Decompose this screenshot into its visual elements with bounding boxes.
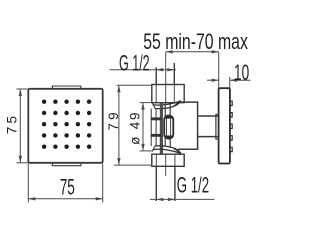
top mounting tab: [52, 86, 81, 89]
body block: [178, 102, 198, 149]
svg-text:55 min-70 max: 55 min-70 max: [143, 31, 248, 55]
nozzle dots 5x5: [42, 100, 91, 149]
centerline of pipe: [165, 52, 167, 103]
bottom mounting tab: [52, 163, 81, 166]
10 dim: [207, 77, 250, 88]
neck above capsule: [165, 103, 170, 147]
capsule (handle): [164, 116, 173, 139]
dimension 75 bottom: [28, 164, 102, 203]
svg-text:10: 10: [234, 60, 249, 85]
top flare collar: [152, 103, 163, 109]
svg-text:ø 49: ø 49: [128, 111, 143, 145]
stem flange at plate: [216, 115, 219, 140]
dark vertical bar: [160, 103, 163, 154]
bottom flare (rosette lower rim): [153, 149, 181, 153]
svg-text:75: 75: [5, 113, 20, 134]
dimension 75 left: [16, 89, 28, 163]
svg-text:75: 75: [60, 174, 75, 199]
inner profile verticals: [151, 109, 156, 147]
square plate front view: [28, 89, 102, 163]
svg-text:G 1/2: G 1/2: [119, 51, 150, 76]
svg-text:G 1/2: G 1/2: [177, 173, 209, 197]
text 75 (left, rotated): [5, 113, 20, 134]
bottom pipe: [156, 166, 175, 201]
clamp bands: [151, 117, 161, 120]
nozzle bumps: [230, 101, 232, 152]
bottom flare collar: [152, 146, 163, 152]
top flare (rosette upper rim): [153, 101, 181, 105]
spray plate (side): [219, 88, 230, 163]
text 75 (bottom): [60, 174, 75, 199]
stem: [198, 116, 218, 137]
G 1/2 top: [110, 69, 177, 71]
svg-text:79: 79: [106, 109, 121, 130]
bottom nut box: [152, 154, 184, 166]
top nut box: [152, 85, 184, 103]
79 dim: [114, 85, 152, 165]
55 min-70 max: [166, 52, 219, 88]
G 1/2 bottom: [150, 198, 215, 200]
ø49 dim: [140, 103, 153, 151]
top pipe: [156, 63, 174, 85]
